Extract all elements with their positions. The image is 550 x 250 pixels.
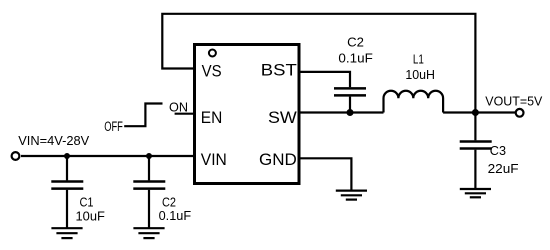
svg-text:0.1uF: 0.1uF bbox=[338, 50, 372, 65]
wire VIN input rail bbox=[21, 155, 194, 157]
wire BST stub to bootstrap cap bbox=[299, 72, 350, 87]
svg-text:ON: ON bbox=[169, 100, 188, 115]
svg-text:VIN=4V-28V: VIN=4V-28V bbox=[18, 133, 89, 148]
node junction C1 bbox=[64, 153, 70, 159]
svg-text:L1: L1 bbox=[413, 51, 424, 66]
ground below C2 bbox=[133, 228, 164, 238]
terminal VIN input bbox=[12, 152, 20, 160]
svg-text:GND: GND bbox=[259, 150, 297, 169]
pin 1 marker circle bbox=[209, 50, 216, 57]
svg-text:SW: SW bbox=[268, 108, 297, 127]
wire VS feedback loop (VS pin to VOUT node) bbox=[162, 14, 475, 113]
svg-text:BST: BST bbox=[261, 61, 297, 80]
svg-text:VOUT=5V: VOUT=5V bbox=[485, 95, 543, 109]
capacitor C2 (bootstrap) bbox=[334, 88, 366, 112]
op-amp U1 regulator IC body bbox=[195, 45, 300, 184]
svg-text:22uF: 22uF bbox=[488, 161, 519, 176]
wire L1 to VOUT bbox=[443, 111, 516, 113]
node junction VOUT bbox=[472, 109, 479, 116]
wire ON/OFF step waveform bbox=[124, 104, 162, 127]
node junction C2 bbox=[146, 153, 152, 159]
ground below C1 bbox=[51, 228, 82, 238]
svg-text:C2: C2 bbox=[347, 35, 364, 50]
wire SW output segment bbox=[299, 111, 384, 113]
svg-text:C3: C3 bbox=[490, 143, 506, 158]
ground below GND pin bbox=[336, 191, 367, 200]
wire GND pin to ground bbox=[299, 158, 351, 190]
wire EN pin stub bbox=[175, 113, 194, 115]
capacitor C2 (input) bbox=[133, 156, 165, 228]
capacitor C3 bbox=[460, 113, 492, 189]
svg-text:VS: VS bbox=[202, 62, 222, 81]
svg-text:10uH: 10uH bbox=[405, 67, 435, 82]
svg-text:0.1uF: 0.1uF bbox=[159, 208, 192, 223]
terminal VOUT bbox=[516, 109, 524, 117]
node junction bootstrap cap on SW bbox=[347, 109, 354, 116]
svg-text:VIN: VIN bbox=[201, 150, 227, 169]
capacitor C1 bbox=[51, 156, 83, 228]
inductor L1 bbox=[384, 91, 444, 113]
svg-text:EN: EN bbox=[201, 108, 223, 127]
svg-text:10uF: 10uF bbox=[76, 208, 105, 223]
svg-text:OFF: OFF bbox=[104, 119, 123, 134]
ground below C3 bbox=[460, 189, 491, 197]
